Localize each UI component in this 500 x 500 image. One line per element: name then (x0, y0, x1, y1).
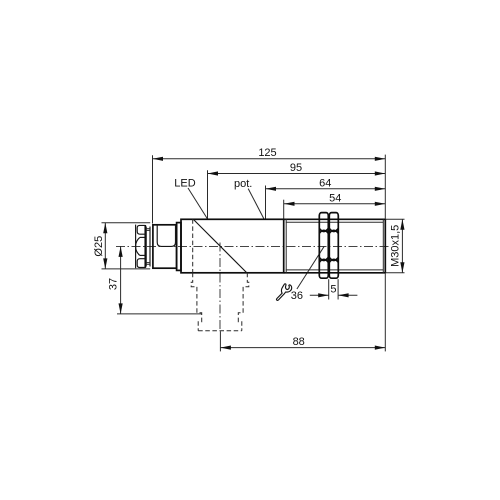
svg-text:5: 5 (330, 284, 336, 296)
svg-text:LED: LED (174, 178, 195, 190)
svg-text:M30x1,5: M30x1,5 (389, 225, 401, 267)
svg-text:88: 88 (293, 336, 305, 348)
svg-text:54: 54 (329, 192, 341, 204)
svg-text:64: 64 (319, 177, 331, 189)
svg-text:pot.: pot. (234, 178, 252, 190)
svg-text:Ø25: Ø25 (93, 236, 105, 257)
svg-text:36: 36 (291, 290, 303, 302)
svg-text:95: 95 (290, 162, 302, 174)
svg-text:37: 37 (108, 278, 120, 290)
svg-text:125: 125 (258, 147, 276, 159)
